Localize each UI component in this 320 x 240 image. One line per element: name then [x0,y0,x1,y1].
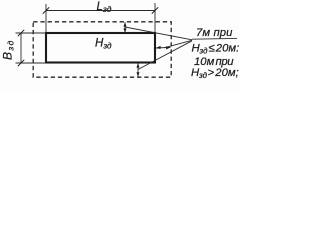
svg-text:Hзд>20м;: Hзд>20м; [191,67,239,80]
svg-text:Hзд≤20м:: Hзд≤20м: [192,43,240,56]
svg-text:7м при: 7м при [196,27,233,39]
svg-text:Lзд: Lзд [97,1,112,14]
svg-text:Bзд: Bзд [1,39,16,60]
